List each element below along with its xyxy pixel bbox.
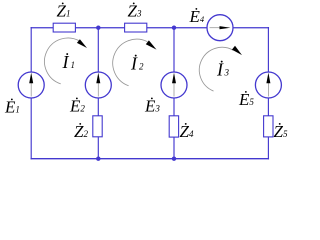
svg-text:İ3: İ3 xyxy=(216,60,230,80)
svg-text:Ż2: Ż2 xyxy=(74,122,88,141)
EMF source E4 xyxy=(207,15,233,41)
svg-text:Ė4: Ė4 xyxy=(189,7,205,26)
wire: left branch xyxy=(30,27,32,159)
impedance Z2 xyxy=(93,116,102,137)
junction node top-right xyxy=(172,26,176,30)
svg-text:Ż4: Ż4 xyxy=(180,122,194,141)
svg-text:Ė1: Ė1 xyxy=(4,97,20,116)
loop current arrow I3 xyxy=(199,46,242,91)
svg-text:Ż3: Ż3 xyxy=(128,1,142,20)
wire: top bus xyxy=(31,27,269,29)
junction node top-left xyxy=(96,26,100,30)
wire: branch 3 xyxy=(173,28,175,159)
loop current arrow I2 xyxy=(113,39,157,86)
impedance Z1 xyxy=(53,23,75,32)
loop current arrow I1 xyxy=(44,38,87,84)
svg-text:Ė2: Ė2 xyxy=(69,96,85,115)
junction node bottom-right xyxy=(172,157,176,161)
EMF source E1 xyxy=(18,72,44,98)
impedance Z5 xyxy=(264,116,273,137)
svg-text:Ż1: Ż1 xyxy=(57,1,71,20)
svg-text:İ1: İ1 xyxy=(62,52,76,72)
junction node bottom-left xyxy=(96,157,100,161)
svg-text:İ2: İ2 xyxy=(130,54,144,74)
impedance Z4 xyxy=(169,116,178,137)
wire: right branch xyxy=(267,27,269,159)
impedance Z3 xyxy=(125,23,147,32)
wire: branch 2 xyxy=(97,28,99,159)
EMF source E3 xyxy=(161,72,187,98)
EMF source E2 xyxy=(85,72,111,98)
wire: bottom bus xyxy=(31,158,269,160)
svg-text:Ė5: Ė5 xyxy=(238,90,254,109)
EMF source E5 xyxy=(255,72,281,98)
svg-text:Ė3: Ė3 xyxy=(144,96,160,115)
svg-text:Ż5: Ż5 xyxy=(274,122,288,141)
